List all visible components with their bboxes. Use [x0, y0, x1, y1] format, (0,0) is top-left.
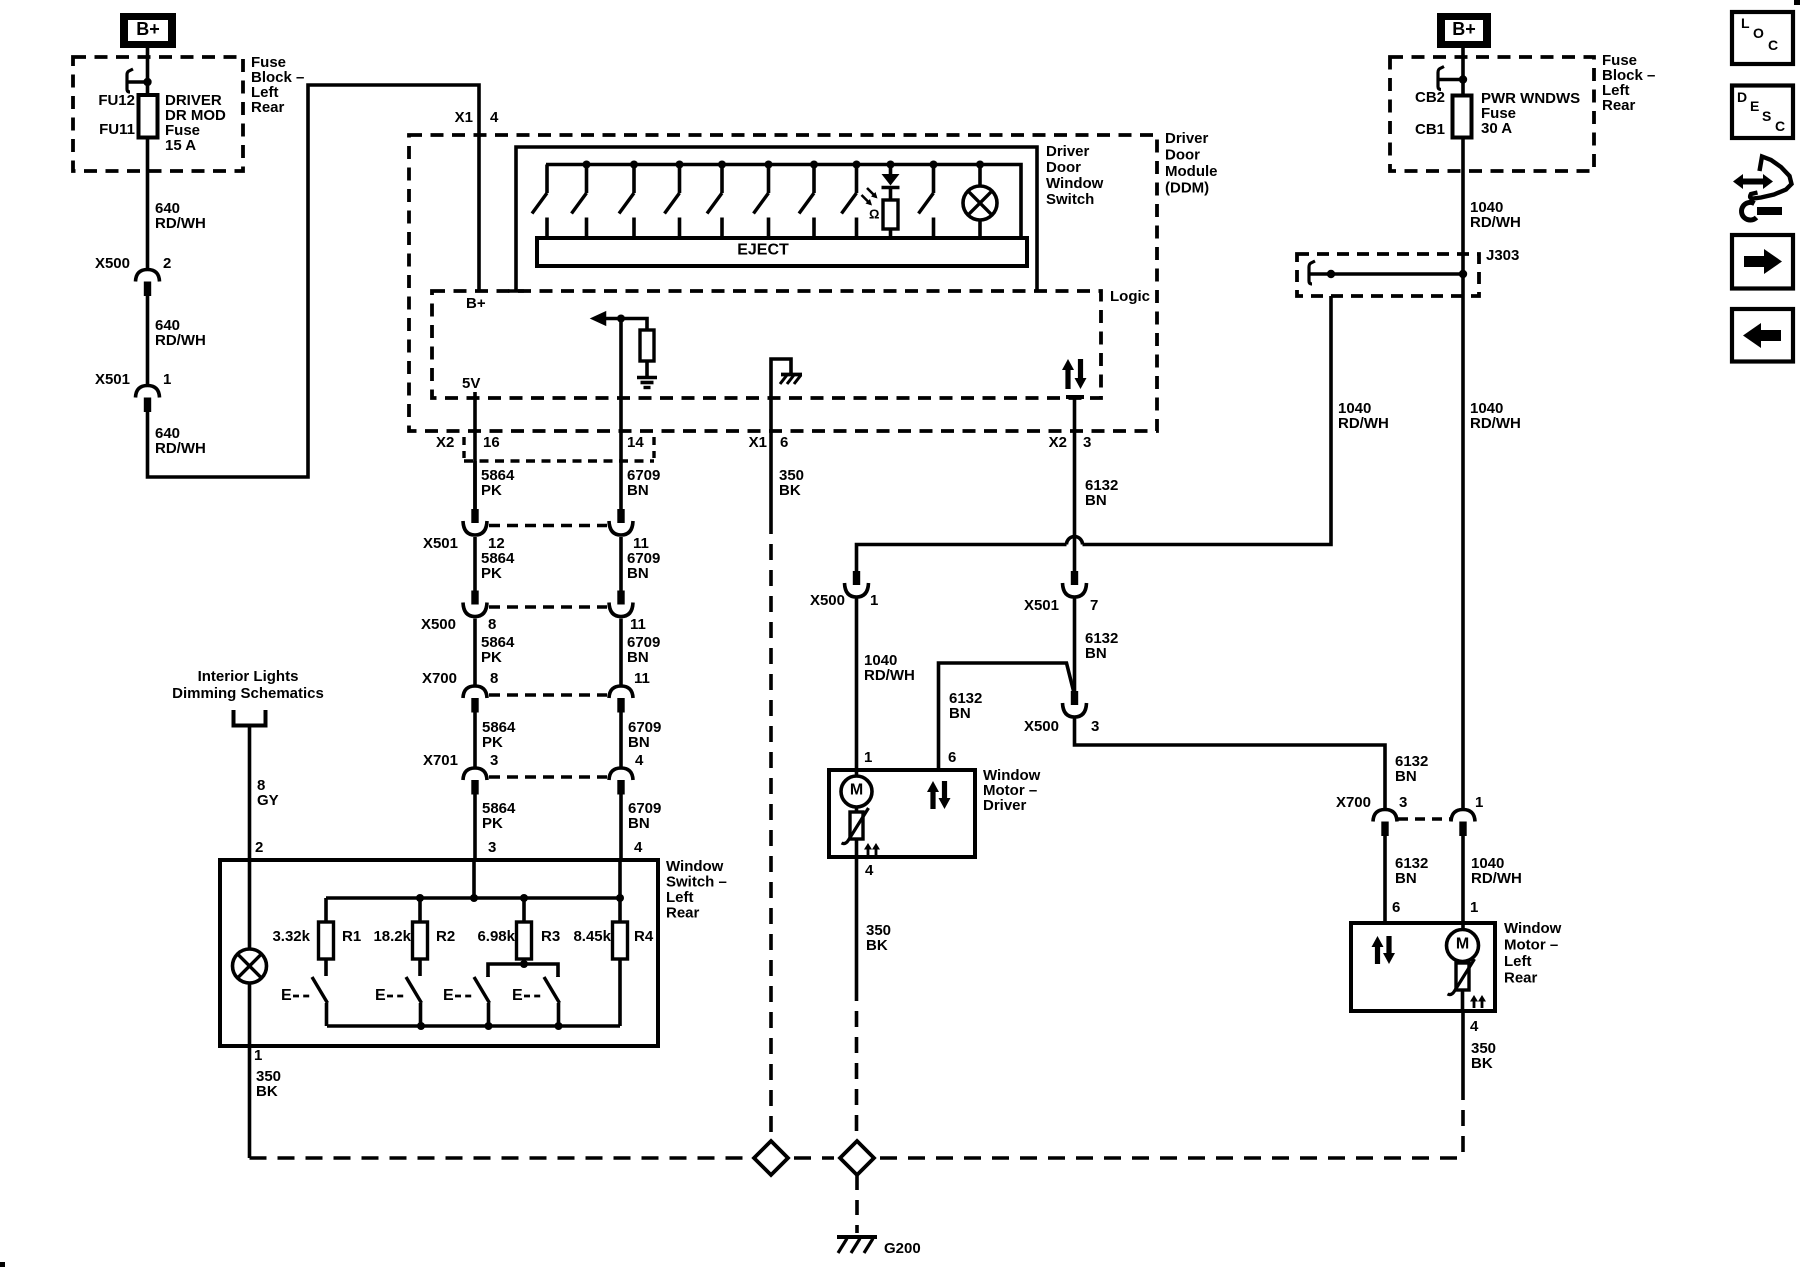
wire interior lights to window switch pin 2 [248, 726, 252, 861]
window switch contact 6 [754, 165, 769, 240]
svg-text:CB2: CB2 [1415, 89, 1445, 106]
svg-text:X2: X2 [436, 434, 454, 451]
svg-text:PK: PK [482, 734, 503, 751]
svg-text:Rear: Rear [666, 904, 700, 921]
wire X700-8 to X701-3 [473, 712, 477, 768]
svg-text:16: 16 [483, 434, 500, 451]
svg-text:X2: X2 [1049, 434, 1067, 451]
svg-text:RD/WH: RD/WH [1471, 870, 1522, 887]
label 6709 BN (5) [628, 800, 661, 832]
wire motor LR pin 4 350 BK [1461, 1011, 1465, 1158]
connector X700 pin 1 (right) [1451, 810, 1475, 837]
wire fuse to X500 pin 2 [146, 138, 150, 270]
label 6709 BN (1) [627, 467, 660, 499]
svg-text:3: 3 [488, 839, 496, 856]
internal 5V reference resistor to ground [592, 312, 658, 388]
svg-text:FU11: FU11 [99, 121, 135, 138]
svg-text:X500: X500 [95, 255, 130, 272]
svg-text:RD/WH: RD/WH [155, 215, 206, 232]
R3 bottom bracket to S3/S4 [488, 959, 558, 977]
junction R2 top [416, 894, 424, 902]
svg-text:3: 3 [1399, 794, 1407, 811]
svg-text:RD/WH: RD/WH [1338, 415, 1389, 432]
svg-text:Switch: Switch [1046, 191, 1094, 208]
circuit breaker hook FU12 [127, 69, 152, 92]
svg-text:11: 11 [630, 616, 646, 633]
svg-text:Module: Module [1165, 163, 1218, 180]
label PWR WNDWS Fuse 30 A [1481, 90, 1580, 137]
wire X501-7 to X500-3 [1073, 599, 1077, 692]
switch illumination lamp [963, 165, 997, 240]
connector X500 pin 3 [1063, 691, 1087, 717]
window switch contact 1 [532, 165, 547, 240]
svg-text:11: 11 [634, 670, 650, 687]
label Fuse Block - Left Rear (right) [1602, 52, 1655, 114]
label 6709 BN (4) [628, 719, 661, 751]
window motor driver box [829, 770, 975, 857]
label 1040 RD/WH (motor LR) [1471, 855, 1522, 887]
label 640 RD/WH (2) [155, 317, 206, 349]
driver door window switch box [508, 147, 1037, 292]
connector X500 pin 11 [609, 591, 633, 617]
svg-text:6.98k: 6.98k [477, 928, 515, 945]
svg-text:X500: X500 [421, 616, 456, 633]
svg-text:RD/WH: RD/WH [864, 667, 915, 684]
label 1040 RD/WH (left branch) [1338, 400, 1389, 432]
wire X701-4 to window switch pin 4 [619, 794, 623, 860]
svg-text:BK: BK [779, 482, 801, 499]
window up-down drive arrows (logic) [1062, 359, 1087, 397]
svg-text:O: O [1753, 25, 1764, 41]
svg-text:X501: X501 [95, 371, 130, 388]
svg-text:Door: Door [1046, 159, 1081, 176]
wire logic to X2-14 [619, 319, 623, 510]
icon next arrow [1732, 235, 1793, 289]
svg-text:1: 1 [1475, 794, 1483, 811]
connector X700 dashed mate line [489, 693, 607, 696]
resistor R2 18.2k [413, 898, 428, 959]
wire J303 internal [1331, 272, 1463, 276]
icon component view (arrow and wrench) [1733, 157, 1792, 221]
resistor ladder bottom bus [327, 1024, 620, 1028]
connector X501 pin 1 [136, 386, 160, 413]
svg-text:C: C [1768, 37, 1778, 53]
icon LOC [1732, 12, 1793, 64]
svg-text:Window: Window [666, 858, 724, 875]
svg-text:X501: X501 [423, 535, 458, 552]
wire J303 to X700-1 (1040 RD/WH main) [1461, 274, 1465, 810]
svg-text:BK: BK [866, 937, 888, 954]
drive arrows (motor LR) [1372, 936, 1396, 964]
svg-text:E: E [375, 987, 386, 1004]
svg-text:1: 1 [1470, 899, 1478, 916]
junction on switch bus 7 [853, 161, 861, 169]
svg-text:EJECT: EJECT [737, 242, 789, 259]
svg-text:Ω: Ω [869, 207, 879, 222]
wire X500-8 to X700-8 [473, 619, 477, 687]
wire X500-3 to X700-3 [1075, 719, 1386, 810]
svg-text:L: L [1741, 15, 1750, 31]
window switch contact 5 [707, 165, 722, 240]
svg-text:D: D [1737, 89, 1747, 105]
label 6132 BN (4) [1395, 855, 1428, 887]
connector X500 pin 2 [136, 270, 160, 297]
label DRIVER DR MOD Fuse 15 A [165, 92, 226, 154]
wire CB1 to J303 [1461, 138, 1465, 275]
resistor R4 8.45k [613, 898, 628, 959]
svg-text:Driver: Driver [1165, 130, 1209, 147]
label 350 BK (motor driver) [866, 922, 891, 954]
svg-text:8.45k: 8.45k [573, 928, 611, 945]
Driver Door Module dashed box [409, 135, 1157, 431]
svg-text:G200: G200 [884, 1240, 921, 1257]
actuator E1 [281, 987, 310, 1004]
svg-text:X701: X701 [423, 752, 458, 769]
wire X501-12 to X500-8 [473, 537, 477, 591]
wire motor driver pin 4 350 BK [855, 857, 859, 1141]
svg-text:X700: X700 [422, 670, 457, 687]
svg-text:1: 1 [870, 592, 878, 609]
LED indicator [882, 165, 900, 201]
actuator E2 [375, 987, 404, 1004]
actuator E3 [443, 987, 472, 1004]
LED resistor [883, 200, 898, 239]
svg-text:S: S [1762, 108, 1771, 124]
connector X2 face dashed outline [464, 437, 654, 461]
label 350 BK (window switch) [256, 1068, 281, 1100]
power symbol B+ (left) [120, 13, 176, 48]
label Window Switch - Left Rear [666, 858, 727, 922]
svg-text:R4: R4 [634, 928, 654, 945]
junction S3 bottom [485, 1022, 493, 1030]
label 5864 PK (1) [481, 467, 515, 499]
svg-text:X1: X1 [749, 434, 767, 451]
svg-text:Window: Window [1046, 175, 1104, 192]
wire logic to X2-3 [1073, 397, 1077, 571]
reset arrows (driver) [864, 843, 880, 857]
svg-text:Logic: Logic [1110, 288, 1150, 305]
svg-text:3: 3 [1091, 718, 1099, 735]
thermal protector (driver) [842, 807, 869, 857]
window motor left rear box [1351, 923, 1495, 1011]
switch S4 [544, 976, 560, 1026]
svg-text:R2: R2 [436, 928, 455, 945]
label 5864 PK (3) [481, 634, 515, 666]
resistor ladder top bus [326, 896, 620, 900]
junction lamp branch [976, 161, 984, 169]
svg-text:8: 8 [488, 616, 496, 633]
window switch contact 8 [842, 165, 857, 240]
power symbol B+ (right) [1437, 13, 1491, 48]
window switch contact 3 [619, 165, 634, 240]
svg-text:2: 2 [163, 255, 171, 272]
label 6132 BN (driver motor) [949, 690, 982, 722]
svg-text:Motor –: Motor – [1504, 936, 1558, 953]
fuse block left rear (right) dashed box [1390, 57, 1594, 171]
junction R3 bracket [520, 960, 528, 968]
switch S2 (under R2) [406, 959, 422, 1026]
wire R4 bottom [618, 959, 622, 1026]
svg-text:Door: Door [1165, 146, 1200, 163]
svg-text:BN: BN [627, 565, 649, 582]
junction R4 top [616, 894, 624, 902]
window switch contact 9 [919, 165, 934, 240]
svg-text:E: E [281, 987, 292, 1004]
resistor R3 6.98k [517, 898, 532, 959]
svg-text:Driver: Driver [1046, 143, 1090, 160]
window switch contact 2 [572, 165, 587, 240]
svg-text:Switch –: Switch – [666, 873, 727, 890]
splice diamond (X1-6 ground) [754, 1141, 788, 1175]
connector X700 dashed mate line (right) [1398, 817, 1450, 820]
svg-text:GY: GY [257, 792, 279, 809]
junction R3 top [520, 894, 528, 902]
svg-text:PK: PK [481, 482, 502, 499]
wire hop over 6132 BN [1067, 537, 1083, 545]
label 640 RD/WH (3) [155, 425, 206, 457]
svg-text:4: 4 [634, 839, 643, 856]
dimming lamp in window switch [233, 860, 267, 1046]
svg-text:1: 1 [254, 1047, 262, 1064]
svg-text:X700: X700 [1336, 794, 1371, 811]
ground bus dashed wire [250, 1156, 1464, 1160]
svg-text:CB1: CB1 [1415, 121, 1445, 138]
svg-text:X501: X501 [1024, 597, 1059, 614]
svg-text:18.2k: 18.2k [373, 928, 411, 945]
junction switch 9 branch [930, 161, 938, 169]
svg-text:4: 4 [490, 109, 499, 126]
svg-text:1: 1 [864, 749, 872, 766]
label 350 BK (motor LR) [1471, 1040, 1496, 1072]
wire B+ to fuse [146, 48, 150, 95]
wire B+ to CB1 [1461, 48, 1465, 96]
svg-text:1: 1 [163, 371, 171, 388]
svg-text:BN: BN [627, 649, 649, 666]
svg-text:2: 2 [255, 839, 263, 856]
label 6709 BN (2) [627, 550, 660, 582]
svg-text:4: 4 [1470, 1018, 1479, 1035]
junction J303 main [1459, 270, 1467, 278]
svg-text:C: C [1775, 118, 1785, 134]
wire X501-11 to X500-11 [619, 537, 623, 591]
switch S3 [474, 976, 490, 1026]
label 6709 BN (3) [627, 634, 660, 666]
icon DESC [1732, 86, 1793, 139]
svg-text:E: E [512, 987, 523, 1004]
thermal protector (left rear) [1448, 959, 1475, 1011]
label 6132 BN (below X2-3) [1085, 477, 1118, 509]
icon back arrow [1732, 309, 1793, 362]
label Interior Lights Dimming Schematics [172, 668, 324, 702]
wire 5V to X2-16 [473, 392, 477, 509]
switch S1 (under R1) [312, 959, 328, 1026]
drive arrows (driver motor) [927, 781, 951, 809]
svg-text:PK: PK [481, 565, 502, 582]
page artifact bottom-left [0, 1262, 5, 1267]
wire X700-11 to X701-4 [619, 712, 623, 768]
wire X700-1 to motor LR pin 1 [1461, 836, 1465, 924]
connector X701 dashed mate line [489, 775, 607, 778]
photo arrows on LED [862, 188, 878, 206]
wire motor driver pin 6 branch [939, 663, 1074, 770]
connector X700 pin 11 [609, 686, 633, 713]
svg-text:R3: R3 [541, 928, 560, 945]
svg-text:6: 6 [948, 749, 956, 766]
svg-text:4: 4 [865, 862, 874, 879]
svg-text:BN: BN [627, 482, 649, 499]
label 640 RD/WH (1) [155, 200, 206, 232]
actuator E4 [512, 987, 542, 1004]
svg-text:M: M [1456, 936, 1469, 953]
svg-text:X500: X500 [1024, 718, 1059, 735]
junction logic resistor [617, 315, 625, 323]
wire window switch pin1 350 BK to ground bus [248, 1046, 252, 1158]
svg-text:Driver: Driver [983, 797, 1027, 814]
page artifact top-right [1794, 0, 1800, 5]
wire X500-11 to X700-11 [619, 619, 623, 687]
connector X500 pin 1 [845, 571, 869, 597]
svg-text:7: 7 [1090, 597, 1098, 614]
motor M (left rear) [1447, 923, 1479, 962]
svg-text:15 A: 15 A [165, 137, 196, 154]
svg-text:Dimming Schematics: Dimming Schematics [172, 685, 324, 702]
label 1040 RD/WH (driver motor) [864, 652, 915, 684]
label Fuse Block - Left Rear (left) [251, 54, 304, 116]
svg-text:Rear: Rear [251, 99, 285, 116]
label 5864 PK (2) [481, 550, 515, 582]
label 1040 RD/WH (right branch) [1470, 400, 1521, 432]
svg-text:RD/WH: RD/WH [155, 332, 206, 349]
svg-text:PK: PK [482, 815, 503, 832]
connector X501 pin 7 [1063, 571, 1087, 597]
svg-text:Left: Left [666, 889, 694, 906]
connector X501 pin 11 [609, 509, 633, 535]
wire diamond to G200 [855, 1175, 859, 1233]
svg-text:(DDM): (DDM) [1165, 179, 1209, 196]
label 350 BK (X1-6) [779, 467, 804, 499]
wire J303 left branch to X500-1 [1083, 296, 1332, 545]
connector X701 pin 3 [463, 768, 487, 795]
svg-text:M: M [850, 782, 863, 799]
wire pin4 entry to resistor bus [618, 860, 622, 898]
svg-text:Left: Left [1504, 953, 1532, 970]
svg-text:B+: B+ [466, 295, 486, 312]
wire X501-1 to DDM X1-4 (640 RD/WH riser) [148, 85, 480, 477]
svg-text:BN: BN [628, 734, 650, 751]
splice J303 dashed box [1297, 254, 1479, 296]
fuse block left rear (left) dashed box [73, 57, 243, 171]
connector X500 pin 8 [463, 591, 487, 617]
svg-text:J303: J303 [1486, 247, 1519, 264]
wire X1-6 350 BK to ground bus [769, 398, 773, 1141]
window switch left rear box [220, 860, 658, 1046]
svg-text:3: 3 [1083, 434, 1091, 451]
off-page bracket (interior lights) [234, 710, 266, 726]
resistor R1 3.32k [319, 898, 334, 959]
label Window Motor - Driver [983, 767, 1041, 814]
wire X701-3 to window switch pin 3 [473, 794, 477, 860]
reset arrows (left rear) [1470, 995, 1486, 1008]
svg-text:B+: B+ [1452, 19, 1476, 39]
connector X501 pin 12 [463, 509, 487, 535]
window switch contact 4 [665, 165, 680, 240]
svg-text:RD/WH: RD/WH [1470, 415, 1521, 432]
window switch contact 7 [799, 165, 814, 240]
svg-text:B+: B+ [136, 19, 160, 39]
svg-text:BN: BN [949, 705, 971, 722]
splice hook J303 [1309, 261, 1335, 284]
connector X700 pin 3 (right) [1373, 810, 1397, 837]
switch bus wire [546, 165, 1021, 240]
svg-text:E: E [1750, 98, 1759, 114]
svg-text:BN: BN [1085, 492, 1107, 509]
svg-text:BK: BK [1471, 1055, 1493, 1072]
connector X700 pin 8 [463, 686, 487, 713]
label Driver Door Window Switch [1046, 143, 1104, 208]
splice diamond (G200) [840, 1141, 874, 1175]
svg-text:BK: BK [256, 1083, 278, 1100]
junction on switch bus 5 [765, 161, 773, 169]
connector X500 dashed mate line [489, 605, 607, 608]
label Driver Door Module (DDM) [1165, 130, 1218, 197]
junction LED branch [887, 161, 895, 169]
svg-text:4: 4 [635, 752, 644, 769]
junction S2 bottom [417, 1022, 425, 1030]
svg-text:3.32k: 3.32k [272, 928, 310, 945]
label 5864 PK (4) [482, 719, 516, 751]
junction on switch bus 3 [676, 161, 684, 169]
label Window Motor - Left Rear [1504, 920, 1562, 987]
svg-text:RD/WH: RD/WH [1470, 214, 1521, 231]
motor M (driver) [841, 770, 872, 807]
internal ground (X1-6) symbol [771, 359, 802, 398]
connector X501 dashed mate line [489, 524, 607, 527]
svg-text:6: 6 [780, 434, 788, 451]
svg-text:30 A: 30 A [1481, 120, 1512, 137]
svg-text:Interior Lights: Interior Lights [198, 668, 299, 685]
junction on switch bus 6 [810, 161, 818, 169]
circuit breaker CB1 PWR WNDWS 30A [1453, 96, 1472, 138]
svg-text:6: 6 [1392, 899, 1400, 916]
svg-text:3: 3 [490, 752, 498, 769]
wire pin3 entry to resistor bus [472, 860, 476, 898]
wire X500-1 to motor driver pin 1 [855, 599, 859, 771]
svg-text:E: E [443, 987, 454, 1004]
circuit breaker hook CB2 [1438, 67, 1467, 90]
wire X500-2 to X501-1 [146, 296, 150, 386]
wire X700-3 to motor LR pin 6 [1383, 836, 1387, 924]
junction on switch bus 1 [583, 161, 591, 169]
svg-text:5V: 5V [462, 375, 480, 392]
label 5864 PK (5) [482, 800, 516, 832]
junction pin3 entry [470, 894, 478, 902]
junction on switch bus 2 [630, 161, 638, 169]
svg-text:BN: BN [628, 815, 650, 832]
label 6132 BN (2) [1085, 630, 1118, 662]
svg-text:14: 14 [627, 434, 644, 451]
label 6132 BN (3) [1395, 753, 1428, 785]
svg-text:X1: X1 [455, 109, 473, 126]
svg-text:FU12: FU12 [98, 92, 135, 109]
wire X2-16 to X501-12 [473, 461, 477, 509]
svg-text:8: 8 [490, 670, 498, 687]
ground G200 symbol [837, 1237, 877, 1253]
EJECT bar [537, 238, 1027, 266]
svg-text:Rear: Rear [1602, 97, 1636, 114]
svg-text:BN: BN [1395, 768, 1417, 785]
fuse FU11/FU12 DRIVER DR MOD 15A [139, 95, 158, 138]
svg-text:RD/WH: RD/WH [155, 440, 206, 457]
